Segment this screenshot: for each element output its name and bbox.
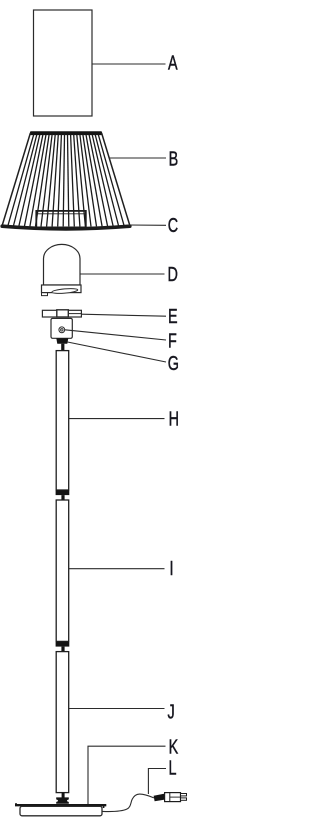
base body [20, 806, 102, 815]
base stud [62, 793, 65, 798]
power cord [103, 794, 154, 811]
coupling spool G [56, 338, 68, 343]
connector stud (H-I joint) [61, 495, 64, 500]
coupling stud G [61, 344, 64, 351]
plug prong 1 [181, 794, 187, 796]
threaded coupler band (I-J joint) [56, 642, 70, 647]
pole section I [56, 500, 68, 641]
svg-text:H: H [169, 407, 179, 430]
mounting plate E middle block [57, 310, 69, 317]
lampshade B ribs [8, 135, 125, 227]
plug cord grip [154, 794, 165, 802]
leader line K (elbow) [88, 746, 166, 804]
plug prong 2 [181, 798, 187, 800]
svg-text:G: G [168, 352, 179, 375]
leader line I [69, 568, 165, 570]
svg-text:C: C [168, 214, 178, 237]
plug body [165, 793, 181, 802]
socket dome D [44, 244, 81, 285]
lampshade B bottom rim [2, 226, 130, 229]
inner harp frame C [36, 211, 86, 228]
svg-text:E: E [168, 305, 178, 328]
plug body inner horizontal line [170, 796, 181, 798]
lampshade B top rim [30, 131, 102, 135]
svg-text:D: D [168, 263, 178, 286]
lampshade B left edge [2, 133, 31, 226]
base top plate K [15, 803, 106, 808]
leader line A [92, 63, 166, 65]
svg-text:L: L [169, 756, 177, 779]
leader line J [69, 708, 165, 710]
pole section H [56, 351, 68, 490]
switch knob F center dot [61, 329, 62, 330]
svg-text:B: B [169, 147, 179, 170]
svg-text:J: J [168, 700, 175, 723]
leader line D [80, 273, 165, 275]
leader line C [128, 224, 166, 226]
connector stud (I-J joint) [61, 647, 64, 652]
plug body inner vertical line [169, 793, 171, 802]
leader line L (elbow) [148, 769, 166, 795]
pole section J [56, 652, 68, 793]
leader line B [110, 157, 167, 159]
svg-text:K: K [169, 735, 179, 758]
switch knob F outer circle [59, 327, 65, 333]
leader line E [82, 314, 167, 316]
svg-text:I: I [170, 557, 174, 580]
leader line F [65, 330, 166, 340]
socket body [51, 318, 72, 338]
packaging box A [34, 10, 93, 116]
switch knob F inner circle [61, 329, 64, 332]
mounting plate E [42, 310, 81, 317]
dome base band D [42, 285, 82, 293]
lampshade B right edge [102, 133, 131, 226]
dome base left tab [42, 293, 48, 296]
leader line H [69, 418, 165, 420]
threaded coupler band (H-I joint) [56, 490, 70, 495]
svg-text:F: F [168, 329, 177, 352]
leader line G [68, 342, 167, 362]
base collar spool [56, 797, 69, 803]
mounting plate E right cell midline [68, 313, 81, 315]
svg-text:A: A [168, 51, 178, 74]
dome base disc (flat ellipse) [52, 288, 78, 294]
